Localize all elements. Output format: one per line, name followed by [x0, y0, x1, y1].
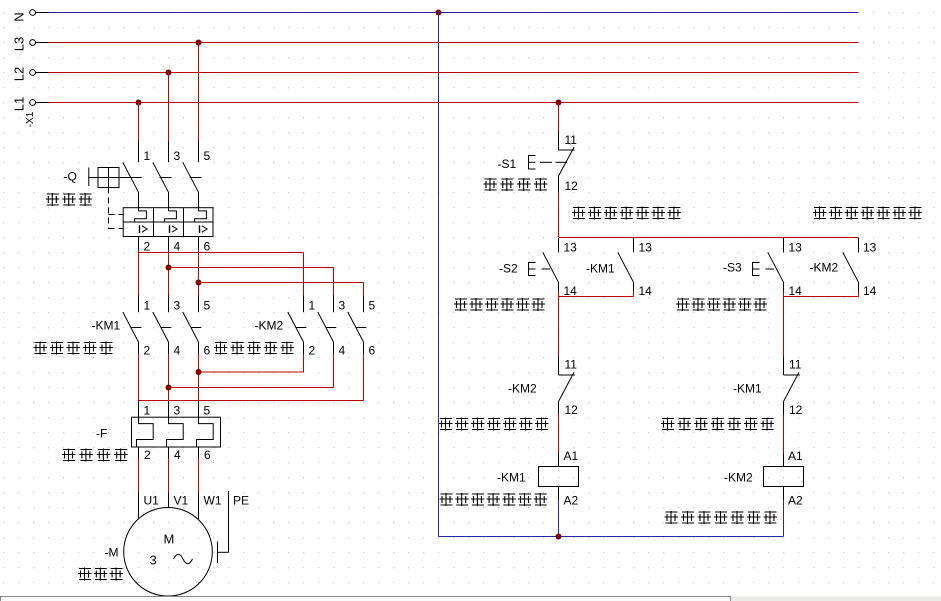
node junction L1 x558 — [556, 100, 562, 106]
svg-text:11: 11 — [565, 133, 578, 147]
contactor -KM2 main contact pole 1 — [288, 312, 304, 342]
node junction N x438 — [436, 10, 442, 16]
svg-text:13: 13 — [564, 241, 578, 255]
contactor -KM1 main contact pole 3 — [183, 312, 199, 342]
PE frame bar — [217, 542, 219, 564]
svg-text:A1: A1 — [788, 449, 803, 463]
svg-text:4: 4 — [339, 344, 346, 358]
svg-text:-M: -M — [105, 546, 119, 560]
PE conductor — [228, 491, 230, 552]
wire jumper y267 -Q pin4 to -KM2 pin3 — [169, 267, 334, 269]
svg-text:14: 14 — [863, 284, 877, 298]
wire -Q pin2 down to -KM1 pin1 — [138, 237, 140, 251]
thermal relay -F element pole 2 — [167, 417, 184, 447]
label 正转接触器线圈 — [440, 493, 454, 506]
svg-text:5: 5 — [204, 299, 211, 313]
svg-text:-S3: -S3 — [723, 261, 742, 275]
svg-text:-KM2: -KM2 — [255, 319, 284, 333]
svg-text:11: 11 — [789, 358, 802, 372]
svg-text:5: 5 — [204, 404, 211, 418]
auxiliary contact -KM1 NC (interlock) — [783, 357, 785, 376]
svg-text:1: 1 — [144, 404, 151, 418]
thermal relay -F element pole 3 — [197, 417, 214, 447]
wire control neutral bottom rail (blue) — [439, 536, 784, 538]
svg-text:W1: W1 — [204, 494, 222, 508]
wire -KM1 pin6 down to -F pin5 — [198, 342, 200, 354]
breaker thermal release pole 3 — [195, 208, 207, 222]
svg-text:2: 2 — [144, 448, 151, 462]
svg-text:-S1: -S1 — [498, 157, 517, 171]
svg-text:12: 12 — [565, 403, 579, 417]
breaker thermal release pole 1 — [135, 208, 147, 222]
breaker -Q pole 2 contact — [168, 142, 170, 163]
svg-text:6: 6 — [369, 344, 376, 358]
contactor coil -KM2 — [783, 454, 785, 467]
terminal -X1 circle L2 — [30, 70, 36, 76]
svg-text:1: 1 — [144, 299, 151, 313]
svg-text:-KM2: -KM2 — [508, 382, 537, 396]
thermal relay -F element pole 1 — [137, 417, 154, 447]
svg-text:6: 6 — [204, 448, 211, 462]
wire -Q pin4 down to -KM1 pin3 — [168, 237, 170, 251]
bottom scrollbar strip — [0, 597, 941, 601]
wire merge -S2/-KM1aux y296 — [558, 291, 560, 297]
node junction x168 y267 — [166, 265, 172, 271]
wire -F pin6 to motor W1 — [198, 447, 200, 458]
svg-text:U1: U1 — [144, 494, 160, 508]
svg-text:3: 3 — [174, 404, 181, 418]
auxiliary contact -KM2 NO — [858, 238, 860, 252]
breaker -Q pole 1 contact — [138, 142, 140, 163]
svg-text:4: 4 — [174, 240, 181, 254]
svg-text:L1: L1 — [12, 97, 27, 111]
terminal -X1 circle L3 — [30, 40, 36, 46]
wire right branch down to -KM1 NC — [783, 297, 785, 357]
svg-text:-F: -F — [96, 427, 107, 441]
label 热继电器 — [62, 449, 76, 462]
node junction L1 x138 — [136, 100, 142, 106]
breaker -Q linkage dashed — [108, 188, 110, 229]
node junction x198 y372 — [196, 369, 202, 375]
wire jumper y387 -KM1 pin4 to -KM2 pin4 — [169, 387, 334, 389]
svg-text:13: 13 — [639, 241, 653, 255]
breaker magnetic release I> pole 2 — [169, 225, 171, 233]
start button -S3 NO contact — [783, 238, 785, 252]
wire jumper y282 -Q pin6 to -KM2 pin5 — [199, 282, 364, 284]
svg-text:-KM1: -KM1 — [92, 319, 121, 333]
svg-text:3: 3 — [150, 553, 157, 568]
contactor coil -KM1 — [558, 454, 560, 467]
circuit breaker -Q operator symbol — [88, 168, 90, 187]
wire -KM2NC to -KM1 coil — [558, 415, 560, 454]
wire L2 drop to -Q pole 2 — [168, 73, 170, 142]
svg-text:2: 2 — [144, 240, 151, 254]
wire -Q pin6 down to -KM1 pin5 — [198, 237, 200, 251]
wire control rail y237 — [559, 237, 859, 239]
node junction x198 y282 — [196, 280, 202, 286]
wire jumper y252 -Q pin2 to -KM2 pin1 — [139, 252, 304, 254]
svg-text:14: 14 — [789, 284, 803, 298]
wire L3 drop to -Q pole 3 — [198, 43, 200, 142]
stop button -S1 NC contact — [558, 131, 560, 150]
node junction L3 x198 — [196, 40, 202, 46]
wire jumper y372 -KM1 pin6 to -KM2 pin2 — [199, 371, 304, 373]
svg-text:5: 5 — [369, 299, 376, 313]
auxiliary contact -KM2 NC (interlock) — [558, 357, 560, 376]
wire L1 drop to -Q pole 1 — [138, 103, 140, 142]
svg-text:12: 12 — [565, 179, 579, 193]
svg-text:13: 13 — [863, 241, 877, 255]
svg-text:6: 6 — [204, 344, 211, 358]
svg-text:14: 14 — [639, 284, 653, 298]
wire -F pin2 to motor U1 — [138, 447, 140, 458]
svg-text:-KM1: -KM1 — [586, 262, 615, 276]
breaker magnetic release I> pole 3 — [199, 225, 201, 233]
svg-text:M: M — [164, 532, 175, 547]
motor -M circle — [124, 508, 213, 597]
button -S2 actuator — [529, 263, 536, 276]
contactor -KM1 main contact pole 2 — [153, 312, 169, 342]
motor sine wave symbol — [174, 554, 193, 564]
svg-text:A2: A2 — [788, 494, 803, 508]
wire merge -S3/-KM2aux y296 — [783, 291, 785, 297]
wire -KM1 pin4 down to -F pin3 — [168, 342, 170, 354]
label 正转启动按钮 — [454, 298, 468, 311]
svg-text:-X1: -X1 — [25, 111, 36, 127]
svg-text:A1: A1 — [564, 449, 579, 463]
label 反转接触器线圈 — [665, 511, 679, 524]
svg-text:-KM1: -KM1 — [497, 471, 526, 485]
label 正转接触器常闭 — [661, 418, 675, 431]
label 正转接触器 — [34, 342, 48, 355]
label 反转启动按钮 — [676, 298, 690, 311]
svg-text:13: 13 — [789, 241, 803, 255]
svg-text:4: 4 — [174, 344, 181, 358]
wire L1 rail — [36, 102, 49, 104]
label 电动机 — [78, 568, 92, 581]
wire -S1 to control rail — [558, 192, 560, 238]
label 反转接触器常开 — [813, 207, 827, 220]
svg-text:1: 1 — [144, 149, 151, 163]
svg-text:L2: L2 — [12, 67, 27, 81]
terminal -X1 circle L1 — [30, 100, 36, 106]
wire L1 drop to -S1 — [558, 103, 560, 132]
auxiliary contact -KM1 NO — [633, 238, 635, 252]
svg-text:2: 2 — [144, 344, 151, 358]
svg-text:-KM1: -KM1 — [733, 382, 762, 396]
svg-text:11: 11 — [565, 358, 578, 372]
svg-text:N: N — [12, 12, 27, 21]
wire N rail (neutral, blue) — [36, 12, 49, 14]
label 停止按钮 — [484, 178, 498, 191]
breaker thermal release pole 2 — [165, 208, 177, 222]
svg-text:2: 2 — [309, 344, 316, 358]
terminal -X1 circle N — [30, 10, 36, 16]
label 正转接触器常开 — [572, 207, 586, 220]
svg-text:14: 14 — [564, 284, 578, 298]
wire left branch down to -KM2 NC — [558, 297, 560, 357]
breaker -Q pole 3 contact — [198, 142, 200, 163]
svg-text:4: 4 — [174, 448, 181, 462]
svg-text:3: 3 — [174, 299, 181, 313]
wire -KM1NC to -KM2 coil — [783, 415, 785, 454]
svg-text:-Q: -Q — [64, 170, 77, 184]
svg-text:PE: PE — [233, 494, 249, 508]
wire control neutral left (blue) — [438, 13, 440, 537]
svg-text:3: 3 — [174, 149, 181, 163]
node junction x168 y387 — [166, 385, 172, 391]
breaker magnetic release I> pole 1 — [139, 225, 141, 233]
thermal relay -F box — [132, 417, 221, 447]
button -S3 actuator — [753, 263, 760, 276]
svg-text:L3: L3 — [12, 37, 27, 51]
svg-text:-S2: -S2 — [499, 262, 518, 276]
svg-text:V1: V1 — [174, 494, 189, 508]
label 反转接触器常闭 — [439, 418, 453, 431]
wire -F pin4 to motor V1 — [168, 447, 170, 458]
breaker -Q release box — [123, 208, 213, 237]
svg-text:6: 6 — [204, 240, 211, 254]
svg-text:1: 1 — [309, 299, 316, 313]
svg-text:-KM2: -KM2 — [724, 471, 753, 485]
wire -KM1 coil to neutral rail (blue) — [558, 500, 560, 537]
svg-text:12: 12 — [789, 403, 803, 417]
contactor -KM1 main contact pole 1 — [123, 312, 139, 342]
start button -S2 NO contact — [558, 238, 560, 252]
svg-text:3: 3 — [339, 299, 346, 313]
svg-text:A2: A2 — [564, 494, 579, 508]
wire L2 rail — [36, 72, 49, 74]
wire L3 rail — [36, 42, 49, 44]
button -S1 actuator — [529, 156, 536, 170]
wire jumper y400 -KM1 pin2 to -KM2 pin6 — [139, 400, 364, 402]
label 反转接触器 — [214, 342, 228, 355]
node junction L2 x168 — [166, 70, 172, 76]
svg-text:-KM2: -KM2 — [810, 261, 839, 275]
contactor -KM2 main contact pole 2 — [318, 312, 334, 342]
contactor -KM2 main contact pole 3 — [348, 312, 364, 342]
node junction x558 y536 — [556, 534, 562, 540]
wire control neutral right riser (blue) — [783, 500, 785, 537]
label 断路器 — [46, 193, 60, 206]
svg-text:5: 5 — [204, 149, 211, 163]
wire -KM1 pin2 down to -F pin1 — [138, 342, 140, 354]
